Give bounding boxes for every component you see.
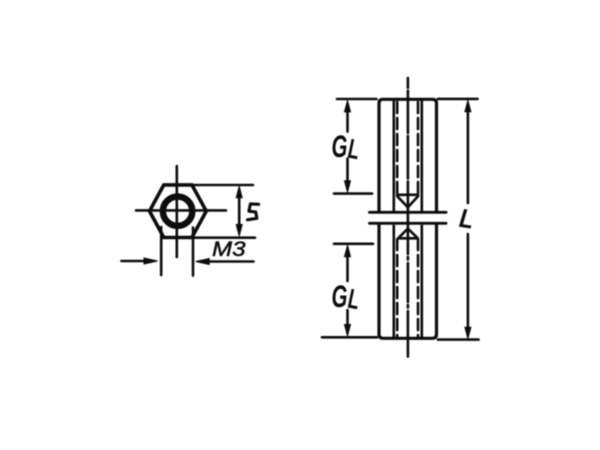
dimension M3: right arrowhead [196,259,210,265]
side view: upper body outline [379,99,437,212]
dimension S: dimension line [238,195,241,227]
dimension M3: left leader line [122,260,148,263]
side view: upper tapped hole hidden line left [396,102,399,194]
left view: horizontal center line [136,209,226,212]
left view: threaded hole ring [163,197,192,226]
left view: vertical center line [176,166,179,257]
dimension GL upper: top extension line [337,98,377,101]
side view: lower hole top flat [399,237,418,240]
side view: lower right hex edge line [420,226,423,337]
dimension GL lower: dimension line upper segment [346,254,349,281]
dimension M3: left arrowhead [144,258,158,264]
left view: hex body outline [150,185,207,238]
side view: lower body outline [379,225,437,338]
side view: upper break edge [370,211,447,214]
dimension S: upper extension line [193,184,253,187]
dimension GL upper: dimension line upper segment [346,109,349,132]
dimension GL upper: bottom extension line [334,192,372,195]
dimension L: dimension line lower segment [467,234,470,329]
dimension L: bottom extension line [438,338,479,341]
side view: lower hole drill point [399,229,418,238]
dimension GL upper: up arrowhead [345,100,351,112]
dimension M3: right leader line [207,260,254,263]
dimension S: label S [247,204,258,220]
svg-text:GL: GL [332,278,362,315]
dimension GL lower: bottom extension line [322,336,377,339]
side view: lower tapped hole hidden line left [396,239,399,337]
side view: upper hole drill point [397,196,418,207]
side view: upper hole bottom flat [397,194,418,197]
side view: upper left hex edge line [392,101,395,211]
side view: vertical center line [407,78,410,357]
dimension GL lower: down arrowhead [345,325,351,337]
dimension L: up arrowhead [465,100,471,112]
side view: lower left hex edge line [392,226,395,337]
side view: lower tapped hole hidden line right [417,239,420,337]
svg-text:M3: M3 [212,237,246,261]
dimension S: upper arrowhead [236,186,242,198]
dimension M3: right extension line [192,228,195,276]
svg-text:GL: GL [332,128,362,165]
dimension GL lower: top extension line [334,243,373,246]
dimension GL upper: dimension line lower segment [346,159,349,184]
dimension S: lower extension line [195,236,256,239]
dimension GL upper: down arrowhead [345,181,351,193]
dimension GL lower: dimension line lower segment [346,310,349,327]
side view: upper right hex edge line [420,101,423,211]
dimension L: dimension line upper segment [467,109,470,203]
side view: lower break edge [370,222,447,225]
dimension M3: left extension line [160,227,163,275]
side view: upper tapped hole hidden line right [417,102,420,194]
dimension S: lower arrowhead [236,225,242,237]
dimension L: down arrowhead [465,327,471,339]
dimension GL lower: up arrowhead [345,245,351,257]
dimension L: top extension line [438,98,478,101]
